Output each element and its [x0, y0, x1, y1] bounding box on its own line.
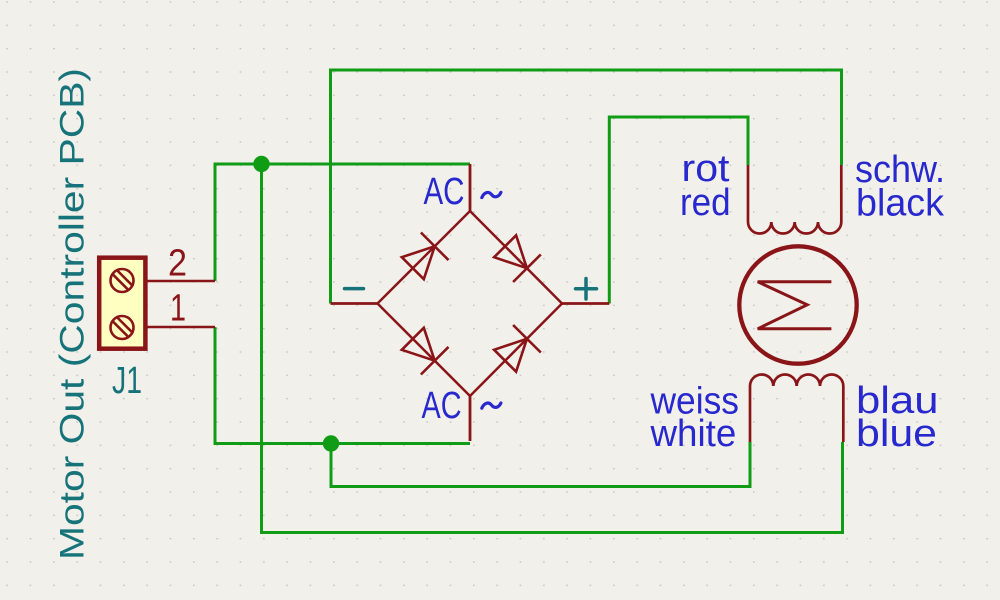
motor M1 top field coil: [748, 165, 841, 234]
wire AC top node to blau lead: [262, 164, 843, 533]
wire pin1 to AC bottom node: [215, 327, 470, 444]
junction dot AC top node: [253, 156, 269, 172]
bridge plus pin lead: [562, 302, 609, 305]
svg-text:AC: AC: [422, 385, 462, 427]
svg-text:blue: blue: [856, 413, 937, 455]
plus symbol: [576, 279, 597, 300]
svg-text:Motor Out (Controller PCB): Motor Out (Controller PCB): [54, 68, 92, 560]
pin 2 lead: [148, 280, 216, 283]
tilde AC bottom: [482, 403, 501, 408]
wire pin2 to AC top node: [215, 164, 470, 281]
svg-text:white: white: [650, 413, 737, 455]
minus symbol: [345, 287, 364, 291]
diode D4 bottom-right: [494, 339, 527, 372]
pin 1 lead: [148, 326, 216, 329]
diode D3 bottom-left: [402, 328, 435, 361]
wire bridge plus to rot lead: [609, 117, 748, 304]
diode D1 top-left: [402, 246, 435, 279]
motor M1 body circle: [739, 246, 856, 363]
svg-text:AC: AC: [424, 171, 465, 213]
wire bridge minus to schw lead: [331, 70, 842, 304]
bridge AC top pin stub: [469, 164, 472, 211]
bridge AC bottom pin stub: [469, 396, 472, 441]
svg-text:J1: J1: [112, 360, 142, 402]
motor M1 sigma glyph: [758, 282, 832, 329]
junction dot AC bottom node: [323, 435, 339, 451]
svg-text:black: black: [856, 183, 945, 225]
screw terminal pin 1: [111, 316, 134, 339]
svg-text:2: 2: [168, 243, 187, 285]
screw terminal pin 2: [111, 269, 134, 292]
diode D2 top-right: [494, 235, 527, 268]
svg-text:red: red: [680, 182, 731, 224]
svg-text:1: 1: [170, 288, 186, 330]
wire AC bottom node to weiss lead: [331, 442, 750, 487]
connector J1 body: [99, 258, 145, 349]
motor M1 bottom field coil: [750, 374, 843, 442]
bridge minus pin lead: [331, 302, 378, 305]
tilde AC top: [482, 192, 501, 197]
bridge rectifier D1 diamond outline: [378, 211, 563, 396]
